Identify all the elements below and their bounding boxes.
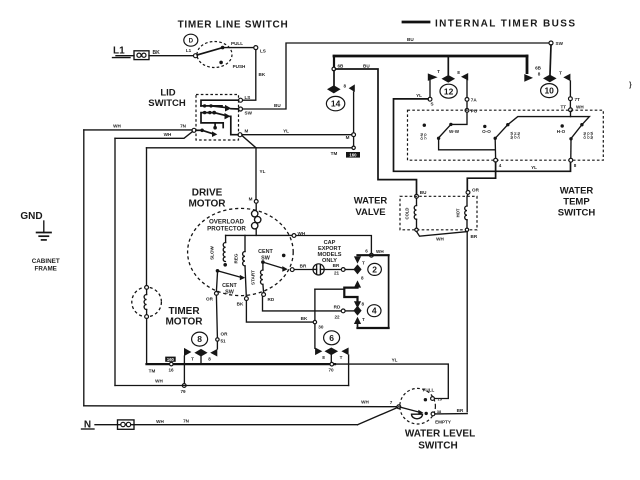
svg-text:8: 8 <box>538 72 541 77</box>
wire: protector to node WH <box>226 234 292 236</box>
temp switch contact dot a <box>449 123 452 126</box>
label: CENT SW (right) <box>258 249 273 262</box>
svg-text:WATER: WATER <box>560 186 594 197</box>
svg-text:T: T <box>191 357 194 362</box>
svg-text:TEMP: TEMP <box>563 197 590 208</box>
svg-text:21: 21 <box>334 271 340 276</box>
wire: switch arm to node LS <box>223 47 254 49</box>
svg-text:W-O: W-O <box>420 133 424 140</box>
timer contact 4 <box>353 301 381 324</box>
svg-text:M: M <box>249 197 253 202</box>
svg-text:WH: WH <box>298 231 306 236</box>
node 70 <box>328 362 334 372</box>
svg-text:INTERNAL TIMER BUSS: INTERNAL TIMER BUSS <box>435 19 576 30</box>
node 51 <box>216 332 228 344</box>
cent sw idle contact dot <box>282 254 286 258</box>
wire: node M down to TM junction node <box>353 137 355 146</box>
wire BU: lid switch SW up and across to node SW <box>243 37 549 109</box>
label: CENT SW (left) <box>222 283 237 296</box>
svg-text:SWITCH: SWITCH <box>558 208 596 219</box>
svg-text:YL: YL <box>531 165 537 170</box>
lid switch interior contact dot with stub <box>213 123 217 130</box>
wire: lid M diagonal to motor feed junction <box>243 136 257 148</box>
temp switch wire to node 8 <box>570 141 572 159</box>
temp switch contact dot d <box>580 123 583 126</box>
label: WATER LEVEL SWITCH <box>405 429 475 452</box>
node LS <box>254 46 266 54</box>
svg-text:FRAME: FRAME <box>35 266 57 273</box>
wire: N line <box>95 424 358 426</box>
svg-text:L1: L1 <box>186 48 192 53</box>
wire: N line diagonal to pivot <box>358 408 398 425</box>
wire: node 7T to node TT <box>569 101 571 108</box>
timer contact 6 <box>315 331 349 360</box>
wire YL: TM line to water level switch FULL <box>335 358 448 399</box>
connector (disconnect plug) on N line <box>118 420 135 429</box>
svg-text:7: 7 <box>390 400 393 405</box>
water temp switch (dashed box) <box>408 110 604 160</box>
terminal N <box>82 420 95 431</box>
svg-text:COLD: COLD <box>405 208 410 220</box>
wire: contact 12 right to node 7A <box>466 80 468 97</box>
svg-text:GND: GND <box>20 211 42 222</box>
wire BR: EMPTY node to right-side BR riser <box>435 408 467 414</box>
svg-text:BK: BK <box>301 316 308 321</box>
svg-text:HOT: HOT <box>456 208 461 217</box>
wire: node 7A to node PU <box>466 101 468 108</box>
svg-text:BR: BR <box>300 264 307 269</box>
node 7T <box>569 97 581 102</box>
svg-text:YL: YL <box>416 93 422 98</box>
wire BU: node 6B to cold water valve <box>336 63 417 194</box>
connector label 160 (black box) <box>346 152 360 158</box>
svg-text:8: 8 <box>362 302 365 307</box>
node 4 <box>494 158 502 168</box>
left bus wire (WH) down to water level switch <box>83 130 85 406</box>
svg-text:O-O: O-O <box>586 132 590 139</box>
internal timer buss wire <box>334 55 527 58</box>
node L1 of timer line switch <box>186 48 198 58</box>
wire: TM junction down to timer motor <box>146 148 148 286</box>
svg-text:START: START <box>251 270 256 285</box>
wire WH: lid switch 7N to left bus <box>84 124 192 130</box>
node TT / WH <box>561 105 585 112</box>
water level switch pivot node 7 <box>397 405 401 409</box>
label: LID SWITCH <box>148 88 186 110</box>
wire YL: lid switch M to node M <box>242 129 352 135</box>
svg-text:7N: 7N <box>183 419 190 424</box>
svg-text:8: 8 <box>197 334 202 344</box>
EMPTY contact <box>425 409 451 425</box>
start winding <box>251 264 264 293</box>
temp switch contact dot c <box>506 123 509 126</box>
PUSH contact dot <box>219 61 223 65</box>
wire: contact 12 left to node S <box>429 81 431 98</box>
svg-text:TT: TT <box>561 105 567 110</box>
wire: node 30 up to contacts 2/4 junction <box>314 289 316 320</box>
svg-text:D: D <box>189 38 194 45</box>
svg-text:WH: WH <box>156 419 164 424</box>
svg-text:REG: REG <box>234 253 239 263</box>
svg-text:W-W: W-W <box>510 132 514 140</box>
node 6B <box>332 64 344 71</box>
svg-text:W-C: W-C <box>517 132 521 139</box>
wire: timer motor to thick TM line <box>146 319 148 365</box>
svg-text:8: 8 <box>344 84 347 89</box>
wire RD: motor start to node 22 <box>263 296 342 311</box>
svg-text:22: 22 <box>334 315 340 320</box>
svg-text:7A: 7A <box>471 98 478 103</box>
wire WH: node 79 line (inner bus to contact 6) <box>115 379 349 386</box>
svg-text:SWITCH: SWITCH <box>418 441 457 452</box>
node SW <box>549 41 564 46</box>
svg-text:YL: YL <box>392 358 398 363</box>
svg-text:YL: YL <box>260 169 266 174</box>
svg-text:WH: WH <box>155 379 163 384</box>
svg-text:T: T <box>362 261 365 266</box>
lid switch interior arm from terminal 7N <box>196 129 217 138</box>
legend: INTERNAL TIMER BUSS <box>403 19 576 30</box>
svg-text:RD: RD <box>268 297 275 302</box>
wire OR: motor to node 51 <box>216 295 217 337</box>
svg-text:8: 8 <box>361 276 364 281</box>
svg-text:160: 160 <box>167 357 175 362</box>
labels WH 7N on N line <box>156 419 189 425</box>
thick TM line (timer motor feed) <box>147 363 336 365</box>
ground GND <box>20 211 51 240</box>
node 7A <box>465 98 477 103</box>
svg-text:PROTECTOR: PROTECTOR <box>207 226 246 233</box>
temp switch idle contact dots <box>423 124 426 127</box>
temp switch position labels <box>420 129 594 141</box>
wire WH: left bus to water level switch pivot <box>84 400 397 407</box>
svg-text:YL: YL <box>283 129 289 134</box>
junction node on TM wire <box>352 146 355 149</box>
svg-text:WATER: WATER <box>354 196 388 207</box>
svg-text:19: 19 <box>438 396 443 401</box>
svg-text:M: M <box>346 135 350 140</box>
wire WH: lid switch 7N second lead to inner bus <box>115 132 193 139</box>
svg-text:MOTOR: MOTOR <box>165 317 203 328</box>
svg-text:OR: OR <box>221 332 229 337</box>
node OR (hot valve) <box>466 188 479 195</box>
svg-text:}: } <box>629 82 632 89</box>
svg-text:8: 8 <box>322 355 325 360</box>
wire BR: valve common down right side to water level switch <box>466 232 468 412</box>
lid switch interior pole 2 (mid rail and arm to M) <box>201 111 238 135</box>
svg-text:T: T <box>340 355 343 360</box>
svg-text:WH: WH <box>361 400 369 405</box>
svg-text:WH: WH <box>376 249 384 254</box>
svg-text:BU: BU <box>274 103 281 108</box>
svg-text:SW: SW <box>225 290 235 296</box>
terminal L1 <box>113 46 131 58</box>
svg-text:BK: BK <box>259 72 266 77</box>
svg-text:T: T <box>362 317 365 322</box>
svg-text:BK: BK <box>237 302 244 307</box>
wire: contact 10 right to node 7T <box>569 81 571 97</box>
node S <box>416 93 433 107</box>
svg-text:SWITCH: SWITCH <box>148 98 186 109</box>
svg-text:SLOW: SLOW <box>210 245 215 259</box>
wire: contact 4 to bottom bar <box>357 324 359 328</box>
svg-text:CABINET: CABINET <box>32 258 60 265</box>
wire YL: junction down to drive motor M <box>256 148 266 200</box>
water valve (dashed box) <box>400 196 477 230</box>
svg-text:RD: RD <box>334 305 341 310</box>
timer line switch S1 (dashed outline) <box>197 42 232 68</box>
svg-text:SW: SW <box>245 111 253 116</box>
overload protector coil <box>252 203 261 235</box>
svg-text:10: 10 <box>544 86 554 96</box>
wire WH: valve common tie <box>417 232 478 242</box>
svg-text:PU: PU <box>471 109 478 114</box>
capacitor C1 (export models) <box>313 264 324 275</box>
temp switch arm 2 <box>495 126 507 139</box>
svg-text:OVERLOAD: OVERLOAD <box>209 219 245 226</box>
node 30 <box>313 320 324 329</box>
svg-text:BR: BR <box>471 234 478 239</box>
svg-text:T: T <box>559 71 562 76</box>
temp switch arm 3 <box>569 125 582 141</box>
wire: L1 lead <box>116 55 134 57</box>
svg-text:BR: BR <box>333 263 340 268</box>
svg-text:OR: OR <box>472 188 480 193</box>
node BK (drive motor) <box>237 297 249 307</box>
timer contact 2 <box>353 256 381 287</box>
wire: buss drop to contact 12 <box>447 56 449 75</box>
timer contact 14 <box>326 84 354 111</box>
wire: contact 6 right arm down to WH line <box>348 355 350 385</box>
svg-text:W-W: W-W <box>590 132 594 140</box>
label: WATER TEMP SWITCH <box>558 186 596 219</box>
svg-text:TIMER LINE SWITCH: TIMER LINE SWITCH <box>178 20 289 31</box>
wire: contact 2 to contact 4 staircase <box>344 288 357 302</box>
wire: node 21 to contact 2 <box>345 269 353 271</box>
wire: contact 8 diamond to TM line <box>200 357 202 363</box>
svg-text:16: 16 <box>168 368 174 373</box>
svg-text:70: 70 <box>328 368 334 373</box>
node BR 21 <box>333 263 345 276</box>
label: TIMER MOTOR <box>165 306 203 328</box>
svg-text:O-O: O-O <box>482 129 491 134</box>
wire: node 22 to contact 4 <box>345 310 353 312</box>
circled terminal D <box>184 34 198 46</box>
svg-text:8: 8 <box>457 70 460 75</box>
svg-text:BU: BU <box>363 63 370 68</box>
svg-text:4: 4 <box>372 306 377 316</box>
wire TM: junction across to timer motor <box>147 148 353 156</box>
svg-text:H-O: H-O <box>513 132 517 139</box>
svg-text:PUSH: PUSH <box>233 64 246 69</box>
label: CAP EXPORT MODELS ONLY <box>318 240 342 264</box>
svg-text:4: 4 <box>499 163 502 168</box>
svg-text:M: M <box>245 129 249 134</box>
node PU <box>465 109 478 114</box>
svg-text:OR: OR <box>206 297 214 302</box>
node RD 22 <box>334 305 345 320</box>
label: WATER VALVE <box>354 196 388 219</box>
lid switch S2 (dashed box) <box>196 95 239 141</box>
wire: node SW down to contact 10 <box>550 45 551 75</box>
svg-text:O-C: O-C <box>423 133 427 140</box>
wire: connector to node L1 <box>149 55 194 57</box>
svg-text:8: 8 <box>208 357 211 362</box>
svg-text:6B: 6B <box>338 64 345 69</box>
svg-text:H-O: H-O <box>557 129 566 134</box>
svg-text:WH: WH <box>113 124 121 129</box>
svg-text:79: 79 <box>180 389 186 394</box>
svg-text:14: 14 <box>331 99 341 109</box>
svg-text:L1: L1 <box>113 46 125 57</box>
svg-text:6B: 6B <box>535 66 542 71</box>
lid switch terminal LS <box>239 95 251 102</box>
wire: buss drop to contact 14 <box>333 56 335 67</box>
node M (drive motor) <box>249 197 259 204</box>
svg-text:DRIVE: DRIVE <box>192 188 223 199</box>
cold valve solenoid L1 <box>405 198 419 231</box>
svg-text:160: 160 <box>349 153 357 158</box>
wire: buss end down to contact 10 left arm <box>526 56 529 73</box>
contacts 2/4 frame wire <box>358 255 389 328</box>
svg-text:12: 12 <box>444 86 454 96</box>
node OR (drive motor) <box>206 292 218 302</box>
svg-text:WH: WH <box>436 237 444 242</box>
slow winding <box>210 235 228 266</box>
svg-text:CENT: CENT <box>222 283 237 289</box>
node WH (drive motor) <box>292 231 306 238</box>
wire: capacitor to node 21 <box>324 269 341 271</box>
wire YL: node S to water temp switch node 8 <box>394 99 571 171</box>
temp switch top bar from TT <box>508 112 590 125</box>
wire BK: node LS down to lid switch <box>243 50 266 101</box>
connector (disconnect plug) on L1 lead <box>134 51 149 60</box>
temp switch arm W-W <box>437 124 460 140</box>
svg-text:WH: WH <box>576 105 584 110</box>
svg-text:BU: BU <box>420 190 427 195</box>
svg-text:LS: LS <box>260 49 266 54</box>
FULL contact <box>423 388 443 402</box>
wire: node 6B to contact 14 diamond <box>333 71 335 86</box>
wire BK: motor to node 30 <box>246 301 313 323</box>
svg-text:30: 30 <box>318 325 324 330</box>
temp switch pivot wire down to node 4 <box>494 140 496 158</box>
drive motor B1 (dashed ellipse) <box>188 208 294 295</box>
svg-text:LS: LS <box>245 95 251 100</box>
label: DRIVE MOTOR <box>188 188 226 210</box>
switch arm of timer line switch <box>197 46 224 55</box>
svg-text:BU: BU <box>407 37 414 42</box>
water level switch S3 (dashed circle) <box>400 388 436 424</box>
svg-text:7T: 7T <box>575 97 581 102</box>
timer contact 12 <box>428 69 468 98</box>
label: OVERLOAD PROTECTOR <box>207 219 246 233</box>
svg-text:8: 8 <box>574 163 577 168</box>
wire: node 30 down to contact 6 <box>314 324 316 348</box>
wire: cent sw pivot to node OR <box>216 273 217 292</box>
lid switch terminal M <box>238 129 249 137</box>
svg-text:TM: TM <box>149 369 156 374</box>
svg-text:W-W: W-W <box>449 129 460 134</box>
svg-text:2: 2 <box>372 264 377 274</box>
centrifugal switch arm (speed) <box>216 269 246 280</box>
node 8 (temp switch) <box>569 158 577 168</box>
node BU (cold valve) <box>415 190 428 198</box>
node 16 with connector label 160 <box>149 357 176 374</box>
svg-text:TM: TM <box>331 151 338 156</box>
label: CABINET FRAME <box>32 258 60 273</box>
svg-text:6: 6 <box>329 333 334 343</box>
wire BR: motor to capacitor <box>294 264 313 270</box>
node 6 WH on contact bar <box>365 249 384 258</box>
pressure dome symbol <box>412 414 423 419</box>
svg-text:LID: LID <box>160 88 175 99</box>
temp switch wire to node 4 <box>439 140 496 150</box>
svg-text:W-O: W-O <box>583 132 587 139</box>
inner bus wire (WH) down to node 79 line <box>114 138 116 385</box>
timer motor B2 (dashed circle) <box>132 286 162 319</box>
timer contact 8 <box>184 332 217 361</box>
svg-text:51: 51 <box>221 339 227 344</box>
wire: contact 6 diamond to node 70 <box>330 355 332 362</box>
svg-text:WATER LEVEL: WATER LEVEL <box>405 429 475 440</box>
wire: node 30 junction to staircase <box>315 288 344 290</box>
svg-text:WH: WH <box>164 132 172 137</box>
svg-text:TIMER: TIMER <box>168 306 200 317</box>
svg-text:EMPTY: EMPTY <box>435 420 451 425</box>
svg-text:BR: BR <box>457 408 464 413</box>
svg-text:MOTOR: MOTOR <box>188 199 226 210</box>
hot valve solenoid L2 <box>456 194 469 231</box>
node M (timer) <box>346 133 356 140</box>
node 79 <box>180 384 186 394</box>
svg-text:PULL: PULL <box>231 41 243 46</box>
lid switch interior pole 1 (LS rail and arm to SW) <box>201 100 239 111</box>
cent sw start arm <box>261 260 288 271</box>
temp switch pivot dot b <box>494 137 497 140</box>
lid switch terminal 7N <box>180 124 196 133</box>
svg-text:7N: 7N <box>180 124 187 129</box>
svg-text:S: S <box>430 102 433 107</box>
lid switch terminal SW <box>239 107 253 116</box>
timer contact 10 <box>524 66 570 98</box>
wire: node 4 to hot valve node OR <box>467 162 495 190</box>
node RD (drive motor) <box>262 293 275 302</box>
node BR (drive motor) <box>290 268 294 272</box>
wire WH: motor protector to contacts 2/4 bar <box>296 236 372 254</box>
water level switch arm <box>399 407 424 415</box>
regular winding <box>234 235 247 296</box>
wire: node 51 to contact 8 <box>216 341 218 349</box>
svg-text:CENT: CENT <box>258 249 273 255</box>
wire: contact 8 left arm down to node 79 <box>183 356 185 384</box>
svg-text:SW: SW <box>556 41 564 46</box>
wire: contact 14 to node M <box>353 92 355 133</box>
svg-text:T: T <box>437 69 440 74</box>
temp switch wire from PU <box>453 112 468 124</box>
svg-text:6: 6 <box>365 249 368 254</box>
svg-text:FULL: FULL <box>423 388 435 393</box>
svg-text:38: 38 <box>437 409 442 414</box>
svg-text:VALVE: VALVE <box>355 207 385 218</box>
